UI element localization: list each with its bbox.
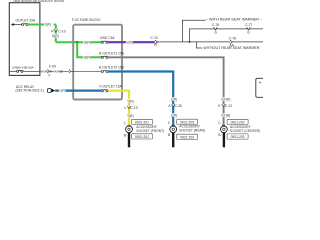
label G(R) — [83, 40, 91, 44]
wire green into fuse block — [56, 41, 102, 43]
svg-text:OUTLET 20A: OUTLET 20A — [16, 18, 37, 22]
tag 0921-201 — [132, 134, 153, 139]
svg-text:F.OUTLET 15A: F.OUTLET 15A — [100, 85, 123, 89]
svg-text:SOCKET (REAR): SOCKET (REAR) — [179, 129, 205, 133]
fuse R.OUTLET2 15A — [101, 70, 108, 72]
svg-text:L(R): L(R) — [171, 97, 177, 101]
connector C-10 pin R — [54, 29, 58, 31]
label L(R) — [170, 97, 177, 101]
label Y(B) — [127, 114, 134, 118]
wire V(R) purple from USB fuse — [108, 41, 155, 43]
svg-text:C-10: C-10 — [58, 29, 65, 33]
junction node — [76, 41, 78, 43]
svg-text:Y(R): Y(R) — [127, 100, 134, 104]
svg-text:0921-202: 0921-202 — [231, 121, 245, 125]
svg-text:F: F — [49, 73, 51, 77]
F-02 fuse block enclosure — [73, 25, 122, 100]
battery fuse box (left enclosure) — [9, 3, 40, 76]
svg-text:R.OUTLET1 15A: R.OUTLET1 15A — [99, 51, 125, 55]
svg-text:R.OUTLET2 15A: R.OUTLET2 15A — [99, 66, 125, 70]
svg-text:C-09: C-09 — [49, 65, 56, 69]
off-page link box (right edge, clipped) — [256, 78, 266, 97]
wire green branch down to R.OUTLET1 — [77, 42, 101, 57]
svg-text:G(R): G(R) — [52, 34, 59, 38]
label GY(B) — [221, 113, 231, 117]
fuse CABIN H/B 60A — [10, 70, 40, 72]
tag 0921-203 — [177, 119, 198, 124]
svg-text:0921-202: 0921-202 — [231, 135, 245, 139]
wire L(R) blue into F.OUTLET — [55, 89, 101, 91]
wire riser to WITH bracket — [182, 20, 205, 42]
label WITHOUT REAR SEAT WARMER pointer — [197, 42, 203, 48]
wire B black ground (center socket) — [223, 133, 225, 147]
label V(R) — [126, 40, 133, 44]
terminal dot — [12, 24, 14, 26]
tag 0921-201 — [132, 119, 153, 124]
svg-text:– WITH REAR SEAT WARMER –: – WITH REAR SEAT WARMER – — [206, 17, 262, 21]
accessory socket (rear) symbol — [172, 125, 175, 126]
wire GY from R.OUTLET1 to center socket — [108, 57, 224, 126]
svg-text:0921-201: 0921-201 — [135, 121, 149, 125]
fuse R.OUTLET1 15A — [101, 56, 108, 58]
svg-text:0921-203: 0921-203 — [180, 135, 194, 139]
tag 0921-202 — [227, 119, 248, 124]
label GY(R) — [221, 97, 231, 101]
wire main thin to right edge — [157, 41, 263, 43]
accessory socket (center) symbol — [222, 125, 225, 126]
svg-text:C-78: C-78 — [229, 37, 236, 41]
svg-text:G(F): G(F) — [45, 22, 52, 26]
wire green vertical to C-10 — [55, 25, 57, 43]
svg-text:G(R): G(R) — [84, 56, 91, 60]
label Y(R) — [127, 99, 134, 103]
svg-text:G(R): G(R) — [84, 40, 91, 44]
svg-text:Y(B): Y(B) — [127, 114, 134, 118]
svg-text:C-76: C-76 — [212, 23, 219, 27]
label L(R) — [170, 113, 177, 117]
svg-text:SOCKET (CENTER): SOCKET (CENTER) — [230, 129, 260, 133]
junction node — [188, 41, 190, 43]
svg-text:(SECTION-0921-1): (SECTION-0921-1) — [16, 89, 44, 93]
wire Y yellow from F.OUTLET to front socket — [108, 91, 129, 126]
svg-text:G: G — [247, 30, 250, 34]
label G(R) — [83, 55, 91, 59]
label G(R) on vertical — [51, 34, 59, 38]
svg-text:SOCKET (FRONT): SOCKET (FRONT) — [136, 129, 164, 133]
label L(R) — [59, 88, 66, 92]
svg-text:L(R): L(R) — [171, 113, 177, 117]
svg-text:0921-201: 0921-201 — [135, 135, 149, 139]
svg-text:W(F): W(F) — [41, 69, 48, 73]
label G(F) — [44, 22, 54, 26]
off-page arrow from ACC RELAY — [48, 89, 52, 93]
accessory socket (front) symbol — [128, 125, 131, 126]
svg-text:USB 7.5A: USB 7.5A — [100, 36, 115, 40]
svg-text:CABIN H/B 60A: CABIN H/B 60A — [12, 65, 35, 69]
svg-text:G: G — [214, 30, 217, 34]
wire L blue from R.OUTLET2 to rear socket — [108, 72, 173, 126]
svg-text:L(R): L(R) — [60, 89, 66, 93]
wire B black ground (front socket) — [128, 133, 130, 147]
wire W from CABIN H/B via C-09 — [40, 70, 101, 72]
svg-text:C-77: C-77 — [245, 23, 252, 27]
svg-text:F-02 FUSE BLOCK: F-02 FUSE BLOCK — [72, 18, 101, 22]
svg-text:L: L — [125, 106, 127, 110]
svg-text:C-13: C-13 — [225, 104, 232, 108]
fuse F.OUTLET 15A — [101, 90, 108, 92]
svg-text:V(R): V(R) — [126, 40, 133, 44]
svg-text:WITHOUT REAR SEAT WARMER: WITHOUT REAR SEAT WARMER — [203, 46, 260, 50]
svg-text:GY(R): GY(R) — [221, 97, 230, 101]
fuse OUTLET 20A — [11, 23, 28, 25]
tag 0921-203 — [177, 134, 198, 139]
fuse USB 7.5A — [101, 41, 108, 43]
svg-text:C-13: C-13 — [130, 106, 137, 110]
tag 0921-202 — [227, 134, 248, 139]
wire branch rear seat warmer line — [189, 29, 263, 42]
svg-text:C-26: C-26 — [175, 104, 182, 108]
wire G(F) green from OUTLET 20A — [28, 24, 56, 26]
svg-text:GY(B): GY(B) — [221, 114, 230, 118]
wire B black ground (rear socket) — [172, 133, 174, 147]
svg-text:C-76: C-76 — [150, 36, 157, 40]
